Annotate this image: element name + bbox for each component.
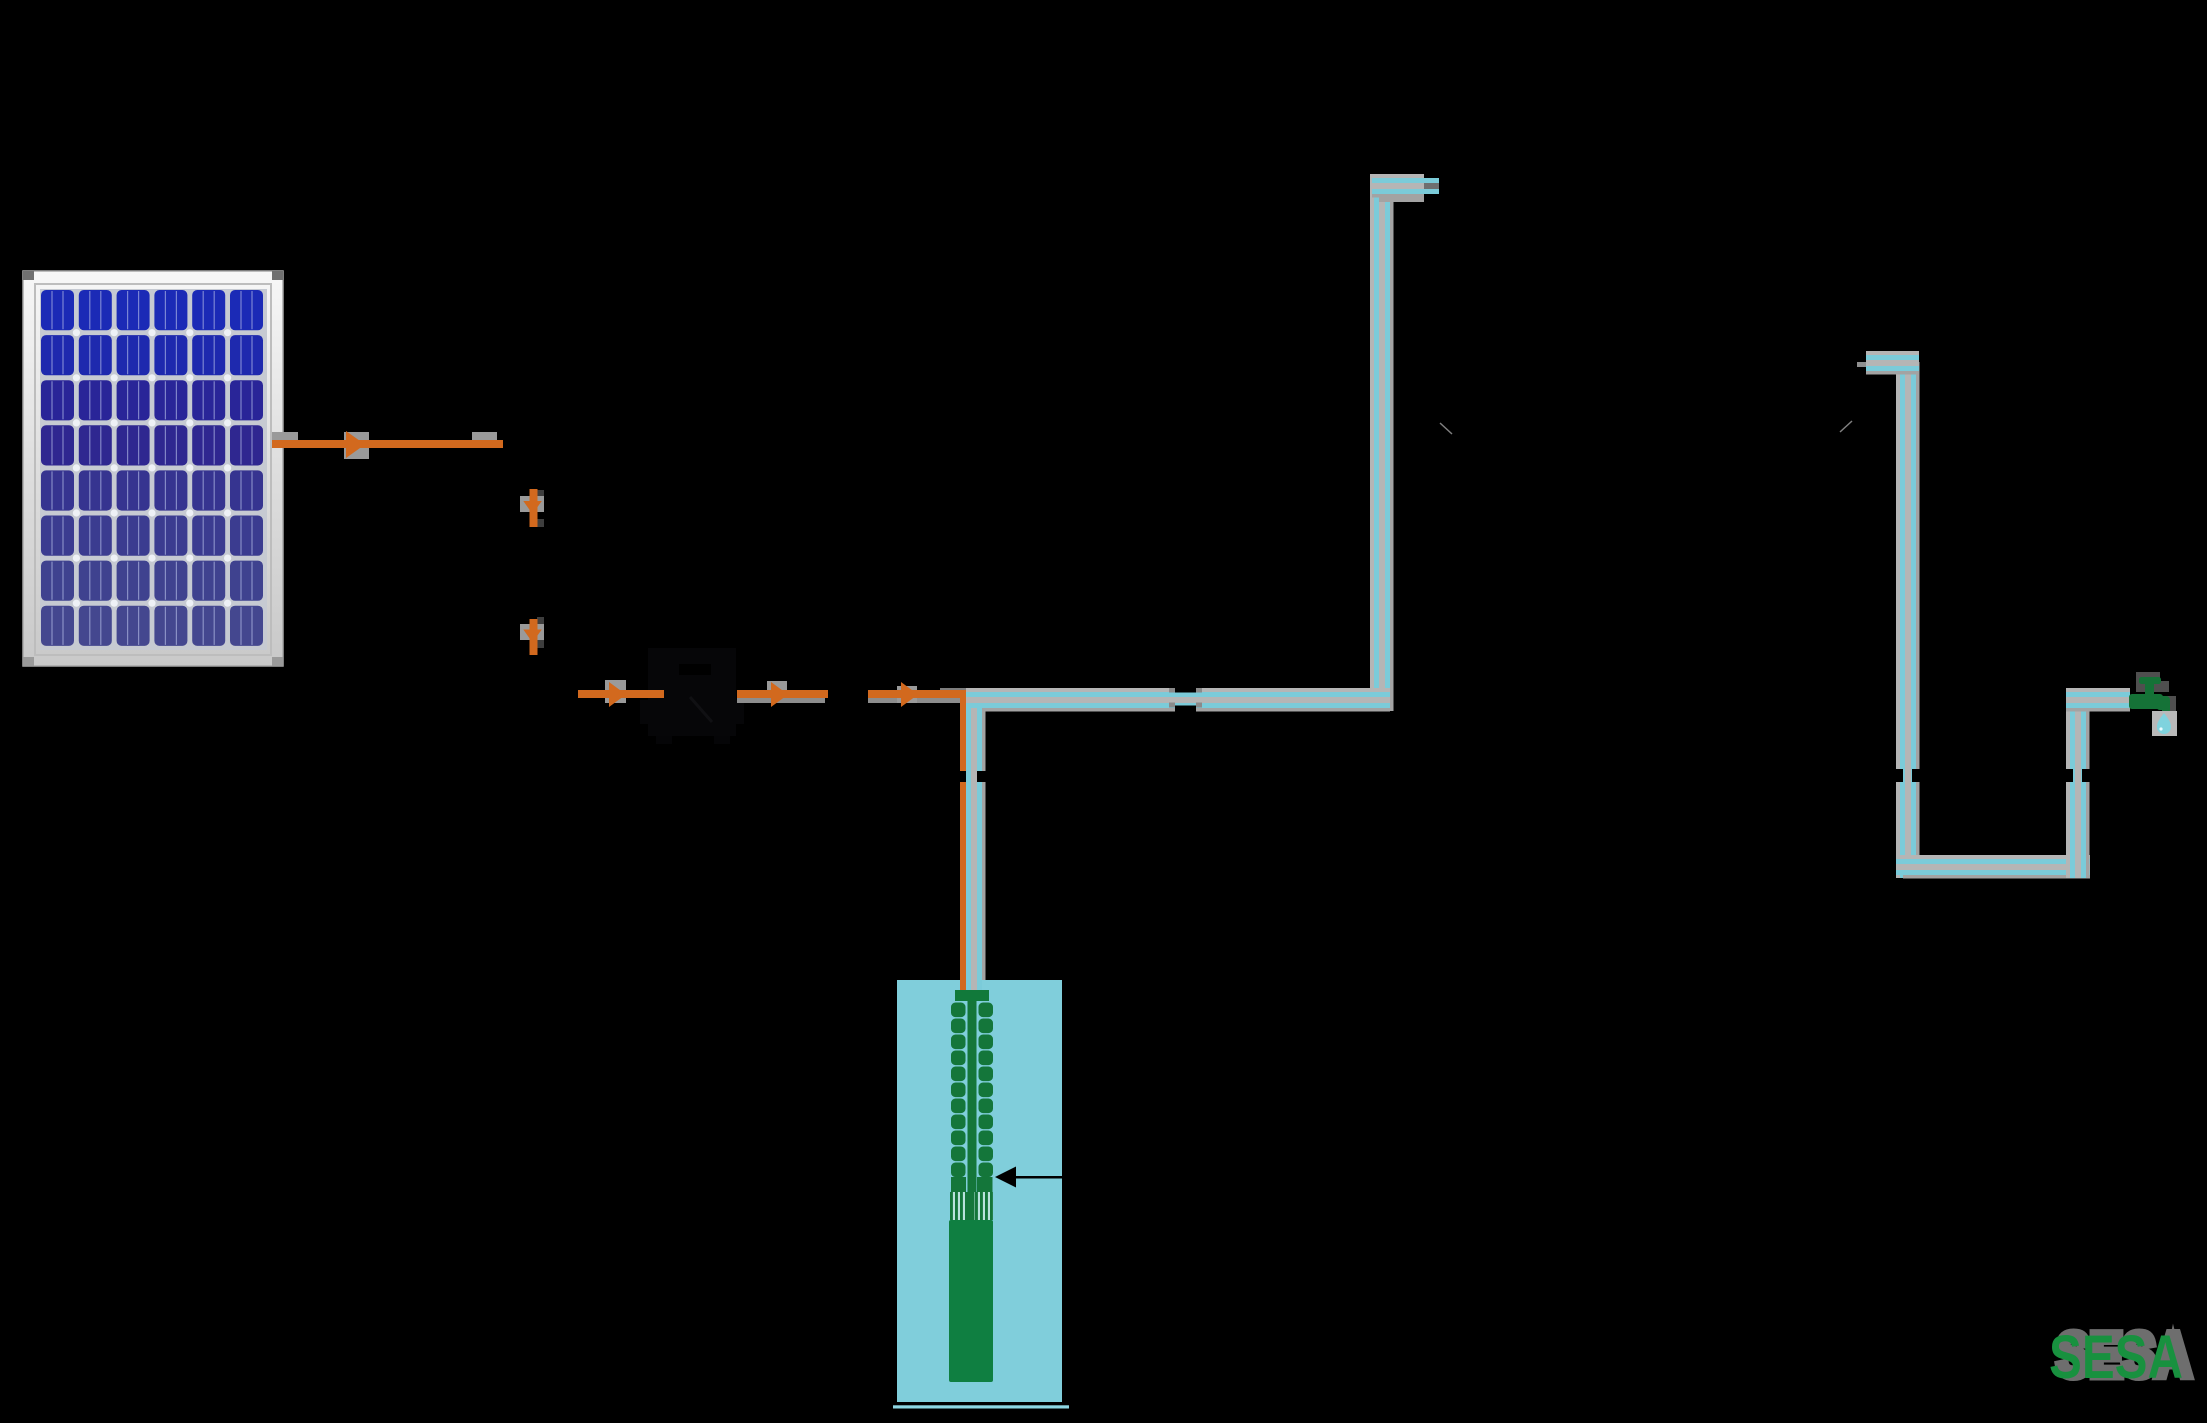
union joint on tap riser: [2062, 769, 2094, 782]
solar panel PV module: [23, 271, 283, 666]
pipe union joint on delivery pipe: [1169, 684, 1202, 715]
water drop: [2157, 713, 2171, 734]
arrow head on W2c: [901, 682, 918, 707]
main horizontal delivery pipe from tee to riser: [966, 688, 1390, 712]
union joint on tank down pipe: [1892, 769, 1924, 782]
drop pipe from tee down into borewell: [966, 708, 986, 992]
tap riser pipe: [2066, 688, 2090, 878]
borewell water column: [897, 980, 1062, 1402]
tap (green faucet): [2129, 677, 2170, 713]
tank bottom-left edge glint: [1440, 423, 1452, 434]
bottom horizontal pipe to tap riser: [1896, 855, 2090, 879]
SESA logo: [2049, 1321, 2191, 1391]
water drop plate: [2152, 711, 2177, 736]
tank bottom-right edge glint: [1840, 421, 1852, 432]
wire W1 from solar panel (orange DC cable): [272, 431, 503, 459]
tap mounting plate (dark): [2136, 672, 2176, 712]
down arrow D2 (current direction): [520, 617, 544, 655]
tank outlet stub pipe: [1854, 350, 1919, 379]
pump power cable (orange, vertical): [960, 692, 966, 1000]
wire W2c to pump tee: [868, 682, 984, 707]
submersible pump: [949, 990, 993, 1382]
arrow head on W1: [346, 431, 365, 458]
riser pipe from tee up to tank: [1370, 174, 1394, 711]
wire W2b controller to junction: [737, 681, 828, 707]
label arrow pointing to pump: [995, 1167, 1180, 1188]
svg-text:SESA: SESA: [2049, 1323, 2183, 1391]
wire W2a to controller: [578, 680, 664, 707]
pump controller box: [640, 648, 744, 744]
drop pipe inside borewell: [966, 980, 982, 994]
riser outlet into tank: [1372, 174, 1439, 202]
arrow head on W2b: [771, 682, 788, 707]
pipe union joint on drop pipe: [956, 771, 990, 782]
borewell bottom line: [888, 1400, 1074, 1411]
down arrow D1 (current direction): [520, 489, 544, 527]
arrow head on W2a: [609, 682, 626, 707]
top pipe into tap: [2066, 688, 2130, 712]
down pipe from tank: [1896, 362, 1920, 878]
